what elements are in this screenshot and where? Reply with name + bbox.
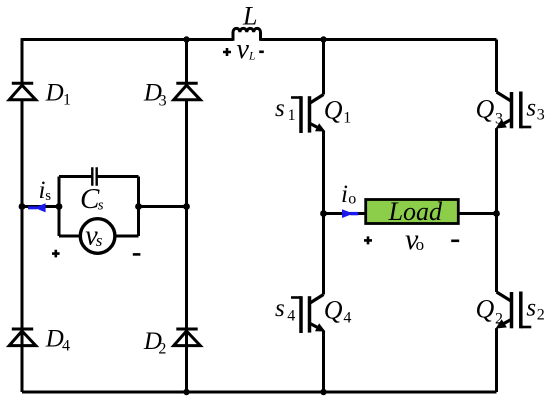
svg-text:L: L [242,2,257,31]
svg-text:3: 3 [537,106,545,123]
svg-text:o: o [348,191,356,208]
svg-text:Q: Q [476,95,495,124]
svg-text:1: 1 [288,107,296,124]
svg-text:Load: Load [388,197,443,226]
svg-text:D: D [45,80,64,107]
svg-text:s: s [45,188,51,204]
svg-text:1: 1 [343,110,351,127]
svg-text:D: D [45,326,64,353]
svg-text:2: 2 [537,306,545,323]
svg-text:s: s [96,231,103,250]
svg-text:4: 4 [343,310,351,327]
svg-text:Q: Q [324,96,343,125]
svg-text:Q: Q [324,296,343,325]
svg-text:o: o [416,235,425,254]
svg-text:s: s [526,94,536,121]
svg-text:2: 2 [495,310,503,327]
svg-text:s: s [98,198,104,214]
svg-text:s: s [526,294,536,321]
svg-text:3: 3 [495,110,503,127]
svg-text:1: 1 [63,92,71,109]
svg-text:s: s [275,95,285,122]
svg-text:s: s [275,295,285,322]
svg-text:4: 4 [287,307,295,324]
svg-text:L: L [248,51,255,63]
svg-text:i: i [341,181,348,208]
svg-text:2: 2 [158,341,166,358]
svg-text:v: v [237,34,250,65]
svg-text:Q: Q [476,295,495,324]
svg-text:4: 4 [62,338,70,355]
svg-text:3: 3 [159,93,167,110]
